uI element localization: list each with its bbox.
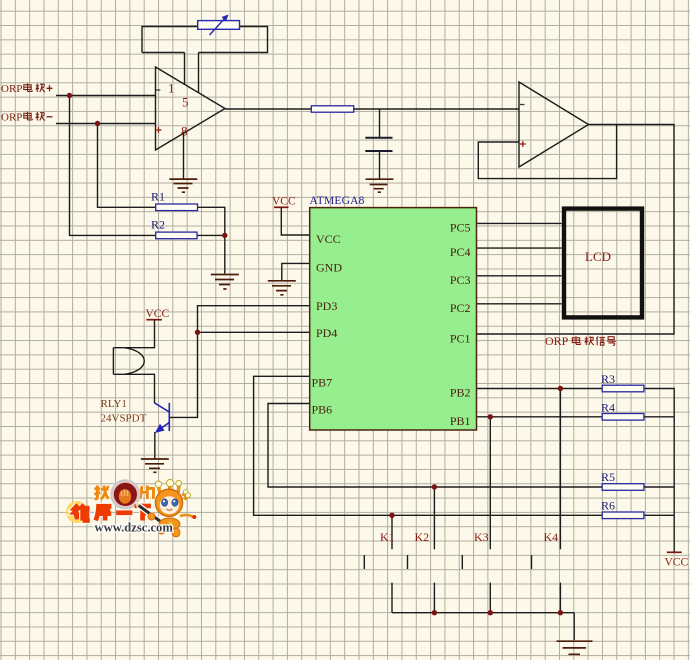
resistor R3 label: [601, 372, 615, 386]
wire switch K1 column: [391, 515, 393, 612]
node D junction dot (PD4/base): [195, 330, 200, 335]
wire VCC to chip VCC pin: [281, 207, 309, 235]
svg-text:PC2: PC2: [450, 301, 471, 315]
svg-text:PC3: PC3: [450, 273, 471, 287]
VCC symbol V2 (relay): [146, 308, 170, 320]
ground G5 (transistor emitter): [141, 459, 169, 472]
wire K3 actuator bar: [461, 555, 463, 569]
wire U2 feedback loop: [478, 125, 616, 179]
node H junction dot (R6/K1): [389, 513, 394, 518]
potentiometer RP1: [198, 15, 240, 36]
svg-text:VCC: VCC: [316, 232, 341, 246]
ground G2 (R1 R2 node): [211, 275, 239, 290]
relay RLY1 value: [101, 413, 147, 425]
switch K1 label: [380, 530, 395, 544]
wire PC4 to LCD: [477, 247, 562, 249]
resistor R6 label: [601, 499, 615, 513]
wire bottom ground rail: [392, 613, 574, 640]
chip pin GND: [316, 260, 342, 274]
wire R7 to op-amp U2 input: [354, 108, 519, 110]
logo weikuyixia text: [74, 504, 151, 520]
wire PB7 to R6 row: [254, 376, 675, 515]
chip pin PC3: [450, 273, 471, 287]
svg-text:PB1: PB1: [450, 414, 471, 428]
op-amp U2 plus sign: [520, 141, 526, 147]
VCC symbol V3 (bottom right): [665, 552, 689, 568]
op-amp U1 pin 5: [182, 95, 189, 110]
watermark logo: [66, 479, 196, 537]
node K junction dot (rail/K4): [558, 610, 563, 615]
wire U1 pin1 stub: [184, 53, 186, 85]
resistor R4 label: [601, 401, 615, 415]
wire K1 actuator bar: [363, 555, 365, 569]
wire PB2 to R3 row: [477, 389, 675, 553]
resistor R5 label: [601, 470, 615, 484]
wire node B down to R1 row: [98, 124, 156, 208]
chip pin PC5: [450, 221, 471, 235]
chip pin PB6: [312, 403, 333, 417]
ground G6 (bottom rail): [557, 641, 593, 654]
svg-text:K3: K3: [474, 530, 489, 544]
wire PD3 to transistor base: [169, 306, 309, 418]
label ORP electrode +: [1, 83, 53, 95]
wire capacitor C1 stems: [379, 109, 381, 179]
svg-text:VCC: VCC: [272, 196, 296, 208]
VCC symbol V1 (chip): [272, 196, 296, 208]
resistor R2 label: [151, 218, 165, 232]
svg-text:1: 1: [168, 81, 175, 96]
wire PB1 to R4 row: [477, 416, 675, 418]
wire ORP electrode - input: [56, 123, 156, 125]
switch K3 label: [474, 530, 489, 544]
switch K2 label: [415, 530, 430, 544]
svg-text:R3: R3: [601, 372, 615, 386]
logo zhao character: [94, 485, 108, 499]
wire switch K3 column: [489, 417, 491, 613]
label ORP electrode -: [1, 112, 53, 124]
svg-text:ATMEGA8: ATMEGA8: [310, 195, 365, 207]
svg-text:GND: GND: [316, 260, 342, 274]
svg-text:ORP: ORP: [545, 334, 569, 348]
logo mascot: [155, 479, 196, 537]
svg-text:ORP: ORP: [1, 83, 22, 95]
svg-text:PD3: PD3: [316, 299, 337, 313]
resistor R2: [156, 232, 197, 239]
op-amp U2 minus sign: [520, 104, 525, 106]
wire switch K4 column: [559, 389, 561, 613]
svg-text:www.dzsc.com: www.dzsc.com: [95, 521, 174, 535]
svg-text:PD4: PD4: [316, 326, 337, 340]
chip U3 ATMEGA8: [310, 208, 477, 430]
svg-text:R6: R6: [601, 499, 615, 513]
wire ORP electrode + input: [56, 95, 156, 97]
resistor R1: [156, 204, 198, 211]
chip pin PB2: [450, 386, 471, 400]
op-amp U1 minus sign: [156, 89, 161, 91]
wire R1 right to node C: [198, 207, 225, 235]
LCD label: [585, 249, 611, 264]
svg-text:K1: K1: [380, 530, 395, 544]
svg-text:8: 8: [181, 124, 188, 139]
logo pian character: [140, 485, 153, 499]
resistor R1 label: [151, 190, 165, 204]
chip pin PD3: [316, 299, 337, 313]
ground G1 (op-amp U1 pin 8): [169, 179, 197, 192]
svg-text:R2: R2: [151, 218, 165, 232]
wire relay VCC stem: [154, 320, 156, 348]
wire switch K2 column: [433, 487, 435, 613]
resistor R6: [602, 512, 644, 519]
logo url text: [95, 521, 174, 535]
transistor Q1: [155, 403, 170, 431]
wire U1 pin8 stub to ground: [183, 132, 185, 179]
transistor Q1 emitter arrow: [155, 424, 165, 433]
resistor R4: [602, 414, 644, 421]
node B junction dot: [95, 121, 100, 126]
svg-text:VCC: VCC: [146, 308, 170, 320]
op-amp U1 pin 1: [168, 81, 175, 96]
wire U2 output right: [477, 125, 675, 335]
svg-text:K4: K4: [544, 530, 559, 544]
op-amp U1 plus sign: [156, 127, 162, 133]
op-amp U2: [519, 82, 589, 167]
capacitor C1: [365, 138, 392, 151]
wire chip GND pin to ground: [282, 263, 310, 280]
svg-text:R4: R4: [601, 401, 615, 415]
wire node A down to R2 row: [70, 96, 156, 236]
op-amp U1 pin 8: [181, 124, 188, 139]
node I junction dot (rail/K2): [432, 610, 437, 615]
svg-text:PC5: PC5: [450, 221, 471, 235]
resistor R3: [602, 385, 644, 392]
relay RLY1 coil: [113, 348, 155, 375]
svg-text:5: 5: [182, 95, 189, 110]
wire relay to transistor collector: [154, 374, 156, 403]
svg-text:R5: R5: [601, 470, 615, 484]
ground G3 (chip GND): [268, 281, 296, 295]
svg-text:PB2: PB2: [450, 386, 471, 400]
chip pin PB7: [312, 376, 333, 390]
LCD module: [564, 209, 642, 318]
chip pin PC4: [450, 245, 471, 259]
wire op-amp U1 output to R7: [225, 108, 311, 110]
wire PC2 to LCD: [477, 303, 562, 305]
svg-text:24VSPDT: 24VSPDT: [101, 413, 147, 425]
svg-text:VCC: VCC: [665, 557, 689, 569]
switch K4 label: [544, 530, 559, 544]
op-amp U1: [156, 67, 226, 150]
node G junction dot (R5/K2): [432, 484, 437, 489]
wire PC5 to LCD: [477, 222, 562, 224]
logo yellow glow: [66, 501, 88, 523]
wire R2 right to node C: [197, 235, 225, 273]
svg-text:LCD: LCD: [585, 249, 611, 264]
node A junction dot: [67, 93, 72, 98]
chip pin VCC: [316, 232, 341, 246]
ground G4 (capacitor C1): [366, 179, 394, 192]
chip pin PB1: [450, 414, 471, 428]
node F junction dot (PB1/K3): [488, 414, 493, 419]
resistor R7 (inline): [311, 106, 353, 112]
chip pin PD4: [316, 326, 337, 340]
svg-text:ORP: ORP: [1, 112, 22, 124]
logo magnifier: [112, 481, 140, 509]
relay RLY1 label: [101, 398, 127, 410]
resistor R5: [602, 484, 644, 491]
chip pin PC1: [450, 332, 471, 346]
wire K4 actuator bar: [531, 555, 533, 569]
svg-text:PC4: PC4: [450, 245, 471, 259]
wire feedback loop U1 with potentiometer: [142, 27, 268, 53]
wire U1 pin5 stub: [198, 53, 200, 94]
chip pin PC2: [450, 301, 471, 315]
wire PD4 to node D: [198, 331, 310, 333]
wire PC3 to LCD: [477, 275, 562, 277]
node E junction dot (PB2/K4): [558, 386, 563, 391]
wire K2 actuator bar: [407, 555, 409, 569]
svg-text:K2: K2: [415, 530, 430, 544]
wire PB6 to R5 row: [268, 404, 674, 488]
svg-text:PC1: PC1: [450, 332, 471, 346]
svg-text:RLY1: RLY1: [101, 398, 127, 410]
svg-text:PB6: PB6: [312, 403, 333, 417]
svg-text:PB7: PB7: [312, 376, 333, 390]
logo pencil: [135, 503, 161, 522]
label ORP electrode signal: [545, 334, 616, 348]
node J junction dot (rail/K3): [488, 610, 493, 615]
chip U3 title: [310, 195, 365, 207]
svg-text:R1: R1: [151, 190, 165, 204]
node C junction dot: [222, 233, 227, 238]
wire transistor emitter to ground: [154, 432, 156, 459]
